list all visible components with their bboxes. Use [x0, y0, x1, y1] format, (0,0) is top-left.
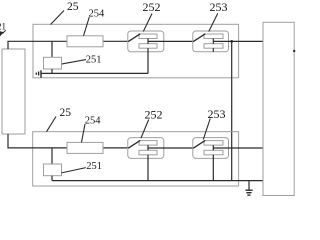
leader arrow for 21 [3, 30, 6, 33]
leader 254 (bottom) [82, 124, 86, 142]
bottom wire (top block) [41, 72, 148, 74]
leader 253 (bottom) [203, 119, 210, 140]
leader 25 (top) [51, 11, 65, 25]
module box 25 (bottom) [33, 132, 239, 186]
sensor box 251 (bottom) [44, 164, 62, 176]
load block (right) [263, 22, 294, 195]
svg-text:21: 21 [0, 22, 6, 32]
relay 252 (bottom) [128, 138, 164, 181]
wire 253 to right block (bottom) [213, 147, 263, 149]
earth ground (bottom right) [246, 181, 253, 196]
resistor box 254 (bottom) [67, 142, 103, 153]
stub wire to 251 (bottom) [51, 148, 53, 164]
connection dot on right edge [293, 50, 295, 52]
leader 251 (top) [62, 60, 86, 64]
svg-text:25: 25 [60, 107, 72, 119]
svg-text:251: 251 [86, 55, 102, 66]
svg-text:254: 254 [85, 115, 102, 126]
leader 253 (top) [209, 13, 218, 31]
stub wire below 251 (bottom) [51, 176, 53, 181]
relay 252 (top) [128, 31, 164, 73]
wire: 254 out to 252 (bottom) [103, 147, 129, 149]
leader 252 (bottom) [141, 120, 149, 139]
leader 252 (top) [143, 14, 152, 32]
wire 252 to 253 (top) [148, 40, 194, 42]
svg-text:252: 252 [145, 108, 163, 122]
stub wire below 251 (top) [51, 69, 53, 73]
svg-text:25: 25 [67, 1, 79, 13]
wire: block21 top to node, into 254 (top) [8, 41, 67, 49]
svg-text:251: 251 [86, 161, 102, 172]
bottom wire (bottom block) to right block [52, 180, 263, 182]
relay 253 (bottom) [193, 138, 229, 181]
stub wire to 251 (top) [51, 41, 53, 57]
module box 25 (top) [33, 24, 239, 78]
wire 252 to 253 (bottom) [148, 147, 194, 149]
wire: block21 bottom to node, into 254 (bottom) [8, 134, 67, 148]
junction node [230, 40, 233, 43]
sensor box 251 (top) [44, 57, 62, 69]
long vertical wire [231, 41, 233, 180]
leader 254 (top) [84, 17, 90, 36]
relay 253 (top) [193, 31, 229, 52]
leader 25 (bottom) [47, 117, 57, 132]
wire 253 to right block (top) [213, 40, 263, 42]
svg-text:252: 252 [143, 0, 161, 14]
battery block 21 [2, 49, 25, 134]
resistor box 254 (top) [67, 36, 103, 47]
svg-text:254: 254 [89, 8, 106, 19]
svg-text:253: 253 [210, 0, 228, 14]
chassis ground (left, top block) [40, 70, 42, 77]
leader 251 (bottom) [62, 168, 86, 173]
wire: 254 out to 252 (top) [103, 40, 129, 42]
